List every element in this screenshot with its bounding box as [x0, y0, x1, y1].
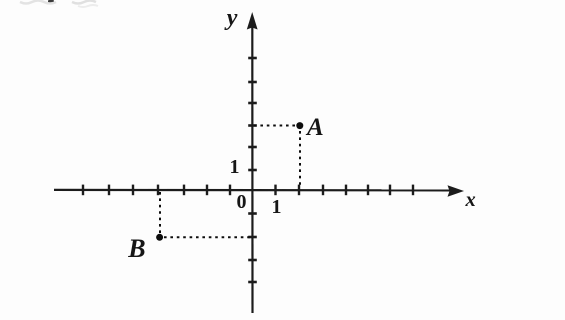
x-axis line	[54, 189, 451, 192]
dotted projection from y-axis to point A	[254, 125, 296, 127]
x-axis tick 1	[274, 185, 276, 196]
svg-text:1: 1	[272, 196, 282, 218]
svg-text:y: y	[224, 5, 238, 31]
svg-text:0: 0	[237, 191, 247, 213]
y-axis tick 4	[248, 102, 257, 105]
y-axis tick 3	[248, 124, 257, 127]
x-axis tick -6	[108, 185, 110, 196]
dotted projection from point B to y-axis	[164, 236, 251, 238]
y-axis tick 2	[248, 146, 257, 149]
svg-text:A: A	[305, 114, 324, 141]
y-axis arrowhead	[247, 12, 258, 30]
x-axis tick 7	[412, 185, 414, 196]
x-axis tick 6	[389, 185, 391, 196]
y-axis line	[251, 22, 253, 313]
x-axis tick 2	[298, 185, 300, 196]
y-axis tick 6	[248, 57, 257, 60]
x-axis tick -1	[229, 185, 231, 196]
x-axis tick -4	[157, 185, 159, 196]
x-axis tick 4	[345, 185, 347, 196]
point A	[296, 122, 303, 129]
y-axis tick -3	[248, 259, 257, 262]
y-axis tick -1	[248, 212, 257, 215]
dotted projection from x-axis to point B	[159, 192, 161, 233]
svg-text:B: B	[127, 234, 145, 263]
y-axis tick 1	[248, 169, 257, 172]
y-axis tick 5	[248, 81, 257, 84]
y-axis tick -4	[248, 281, 257, 284]
x-axis arrowhead	[448, 185, 465, 197]
scan artifact top-left dark blob	[48, 0, 54, 3]
x-axis tick -2	[206, 185, 208, 196]
svg-text:x: x	[465, 189, 476, 211]
scan artifact faint squiggles	[20, 1, 56, 4]
dotted projection from point A to x-axis	[299, 131, 301, 188]
x-axis tick -5	[132, 185, 134, 196]
x-axis tick -3	[183, 185, 185, 196]
x-axis tick 3	[322, 185, 324, 196]
svg-text:1: 1	[230, 156, 240, 178]
y-axis tick -2	[248, 236, 257, 239]
x-axis tick 5	[367, 185, 369, 196]
x-axis tick -7	[82, 185, 84, 196]
point B	[156, 234, 163, 241]
